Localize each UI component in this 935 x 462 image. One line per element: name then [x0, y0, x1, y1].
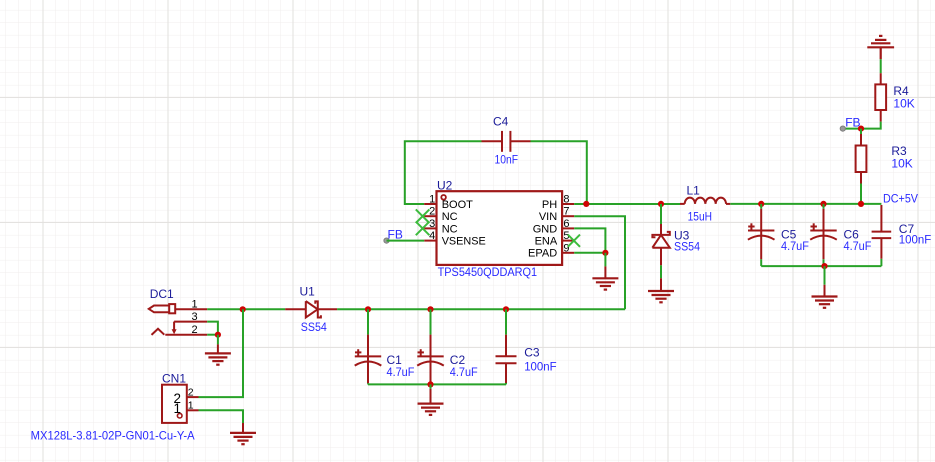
wire PH rail	[574, 203, 680, 205]
net label anchor FB left	[384, 238, 389, 243]
junction C1 top	[365, 306, 371, 312]
svg-text:DC+5V: DC+5V	[883, 192, 918, 206]
svg-text:1: 1	[191, 299, 197, 311]
wire input ground rail	[368, 383, 506, 385]
svg-text:3: 3	[429, 218, 435, 230]
svg-text:1: 1	[429, 194, 435, 206]
resistor R4	[875, 73, 886, 121]
wire C3 top wire	[505, 309, 507, 334]
junction C3 top	[503, 306, 509, 312]
junction input rail/CN1	[240, 306, 246, 312]
output ground stem	[824, 285, 826, 297]
net label anchor FB right	[840, 126, 845, 131]
CN1 polarity circle	[177, 413, 182, 418]
wire CN1 pin2 to input rail	[199, 309, 244, 397]
svg-text:ENA: ENA	[535, 236, 558, 248]
svg-text:L1: L1	[687, 184, 701, 198]
wire C1 bottom wire	[367, 383, 369, 384]
wire R3 to +5V rail	[860, 184, 862, 204]
capacitor C4	[482, 131, 531, 152]
junction C6 top	[820, 201, 826, 207]
ground stem U2	[604, 266, 606, 278]
junction GND/EPAD	[602, 250, 608, 256]
svg-text:PH: PH	[542, 199, 557, 211]
svg-text:100nF: 100nF	[524, 359, 556, 373]
wire C3 bottom wire	[505, 383, 507, 384]
wire C5 top wire	[760, 204, 762, 209]
svg-text:FB: FB	[388, 228, 403, 242]
wire jack to ground	[217, 335, 219, 345]
svg-text:100nF: 100nF	[899, 232, 931, 246]
jack ground stem	[217, 344, 219, 353]
wire input rail	[337, 308, 625, 310]
wire GND to EPAD node	[574, 228, 605, 252]
ground output GND	[812, 297, 838, 308]
svg-text:4.7uF: 4.7uF	[781, 239, 809, 253]
svg-text:CN1: CN1	[162, 371, 186, 385]
svg-text:9: 9	[563, 242, 569, 254]
capacitor C6 polarized	[810, 209, 837, 259]
svg-text:3: 3	[191, 311, 197, 323]
wire pin2 wire	[207, 334, 218, 336]
diode U1 SS54	[285, 301, 337, 317]
svg-text:NC: NC	[442, 211, 458, 223]
junction PH/C4	[583, 201, 589, 207]
svg-text:EPAD: EPAD	[528, 248, 557, 260]
svg-text:10K: 10K	[891, 156, 912, 170]
connector CN1	[162, 385, 187, 423]
junction C5 top	[758, 201, 764, 207]
wire EPAD to ground	[604, 253, 606, 267]
no-connect X pin 5 ENA	[568, 235, 580, 247]
svg-text:7: 7	[563, 206, 569, 218]
svg-text:GND: GND	[533, 223, 558, 235]
svg-text:C3: C3	[524, 346, 540, 360]
svg-text:4: 4	[429, 230, 435, 242]
svg-text:15uH: 15uH	[688, 209, 712, 223]
wire C7 bottom wire	[880, 259, 882, 266]
capacitor C7 100nF	[872, 205, 892, 259]
capacitor C1 polarized	[355, 335, 382, 384]
svg-text:SS54: SS54	[301, 320, 327, 334]
svg-text:VIN: VIN	[539, 211, 557, 223]
svg-text:TPS5450QDDARQ1: TPS5450QDDARQ1	[438, 265, 538, 279]
svg-text:6: 6	[563, 218, 569, 230]
wire output ground rail	[761, 265, 881, 267]
wire VIN to input rail	[574, 216, 625, 309]
svg-text:4.7uF: 4.7uF	[450, 365, 478, 379]
capacitor C5 polarized	[748, 209, 775, 259]
svg-text:2: 2	[188, 386, 194, 398]
junction C2 top	[427, 306, 433, 312]
svg-text:10nF: 10nF	[495, 153, 519, 167]
ground input GND	[418, 404, 444, 415]
wire jack to U1	[207, 308, 285, 310]
wire ground to R4	[880, 59, 882, 73]
wire C4 to BOOT	[405, 141, 482, 204]
capacitor C2 polarized	[417, 335, 444, 384]
DC1 switch arrowhead	[172, 329, 177, 334]
wire U3 to ground	[660, 265, 662, 278]
U2 right pin stubs 8,7,6,5,9	[562, 204, 574, 253]
junction R3 bottom	[858, 201, 864, 207]
junction PH/U3	[658, 201, 664, 207]
junction FB/R3/R4	[858, 126, 864, 132]
svg-text:4.7uF: 4.7uF	[844, 239, 872, 253]
wire C6 top wire	[823, 204, 825, 209]
capacitor C3 100nF	[496, 335, 517, 383]
ground U2 GND	[592, 278, 618, 289]
wire output rail DC+5V	[730, 203, 881, 205]
svg-text:4.7uF: 4.7uF	[387, 365, 415, 379]
U3 ground stem	[660, 278, 662, 291]
resistor R3	[856, 134, 867, 184]
no-connect X pin 2	[416, 209, 430, 223]
svg-text:2: 2	[429, 206, 435, 218]
svg-text:10K: 10K	[893, 97, 914, 111]
inductor L1 15uH	[680, 198, 730, 204]
svg-text:1: 1	[188, 400, 194, 412]
ground DC1 GND	[205, 353, 231, 364]
U2 left pin stubs 1-4	[424, 204, 436, 241]
svg-text:1: 1	[173, 401, 181, 416]
wire C4 to PH	[531, 141, 587, 204]
CN1 ground stem	[242, 423, 244, 433]
svg-text:BOOT: BOOT	[442, 199, 473, 211]
svg-text:C4: C4	[493, 114, 509, 128]
svg-text:U1: U1	[300, 284, 316, 298]
wire FB node to R3	[860, 129, 862, 134]
svg-text:8: 8	[563, 194, 569, 206]
svg-text:VSENSE: VSENSE	[442, 236, 486, 248]
input ground stem	[430, 389, 432, 404]
no-connect X pin 3	[416, 222, 430, 236]
wire C1 top wire	[367, 309, 369, 334]
ground CN1 GND	[230, 433, 256, 444]
junction jack gnd	[215, 332, 221, 338]
diode U3 SS54	[652, 224, 669, 265]
wire R4 to FB node	[843, 122, 881, 129]
wire C2 bottom wire	[430, 383, 432, 384]
svg-text:SS54: SS54	[674, 239, 700, 253]
wire to output ground	[824, 266, 826, 285]
svg-text:2: 2	[191, 324, 197, 336]
wire CN1 pin1 to ground	[199, 410, 244, 423]
svg-text:NC: NC	[442, 223, 458, 235]
op-amp U2 body TPS5450QDDARQ1	[437, 191, 563, 265]
wire FB to VSENSE	[387, 240, 425, 242]
junction output gnd	[821, 263, 827, 269]
svg-text:MX128L-3.81-02P-GN01-Cu-Y-A: MX128L-3.81-02P-GN01-Cu-Y-A	[31, 428, 195, 442]
wire to input ground	[430, 384, 432, 389]
connector DC1 barrel jack	[149, 304, 207, 335]
ground GND top-right (pointing up)	[867, 36, 894, 59]
wire C2 top wire	[430, 309, 432, 334]
ground U3 anode GND	[648, 291, 674, 302]
wire C6 bottom wire	[823, 259, 825, 266]
svg-text:DC1: DC1	[150, 287, 174, 301]
wire pin3 to pin2	[207, 322, 218, 335]
pin 1 marker circle	[441, 195, 446, 200]
wire EPAD wire	[574, 252, 605, 254]
wire PH to U3	[660, 204, 662, 224]
junction input gnd	[427, 381, 433, 387]
wire C5 bottom wire	[760, 259, 762, 266]
